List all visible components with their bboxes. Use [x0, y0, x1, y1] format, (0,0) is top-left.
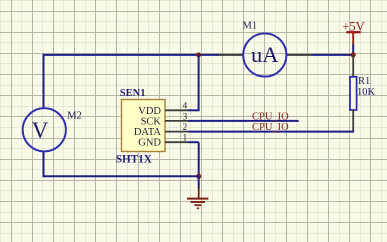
ground bar 3: [194, 204, 201, 206]
ammeter M1 body circle: [243, 33, 286, 76]
svg-text:uA: uA: [251, 42, 279, 67]
chip SEN1 body: [122, 100, 166, 152]
svg-text:R1: R1: [358, 76, 370, 87]
svg-text:SCK: SCK: [141, 116, 162, 127]
ammeter M1 right pin: [287, 54, 313, 56]
wire: stub below power port: [352, 44, 354, 55]
svg-text:VDD: VDD: [138, 106, 161, 117]
wire: VDD horizontal stub to pin 4: [188, 109, 200, 111]
svg-text:3: 3: [183, 112, 188, 122]
junction dot at +5V rail: [351, 52, 356, 57]
resistor R1 body: [350, 77, 357, 110]
svg-text:CPU_IO: CPU_IO: [252, 122, 289, 133]
ground bar 1: [187, 198, 208, 200]
wire: VDD vertical drop: [198, 55, 200, 110]
ground symbol stem: [198, 189, 200, 198]
ground bar 4: [197, 207, 199, 209]
svg-text:V: V: [32, 118, 49, 143]
wire: DATA net: [188, 131, 354, 133]
pin 4 line: [165, 109, 188, 111]
wire: SCK net: [188, 120, 299, 122]
ground stem wire part: [198, 176, 200, 189]
resistor R1 top pin: [352, 55, 354, 77]
wire: M2 top vertical segment: [43, 55, 45, 109]
svg-text:1: 1: [183, 134, 188, 144]
svg-text:2: 2: [183, 123, 188, 133]
svg-text:M2: M2: [67, 110, 82, 121]
svg-text:DATA: DATA: [134, 127, 162, 138]
svg-text:10K: 10K: [357, 87, 376, 98]
svg-text:SEN1: SEN1: [120, 88, 146, 99]
wire: GND vertical from pin 1: [198, 142, 200, 176]
wire: main horizontal net to ammeter: [43, 54, 220, 56]
pin 1 line: [165, 141, 188, 143]
wire: GND stub from pin 1: [188, 141, 199, 143]
power port +5V stem: [352, 33, 354, 45]
junction dot at ground node: [196, 174, 201, 179]
svg-text:SHT1X: SHT1X: [116, 154, 152, 166]
svg-text:M1: M1: [243, 21, 258, 32]
ammeter M1 left pin: [219, 54, 244, 56]
ground bar 2: [191, 201, 205, 203]
power port +5V bar: [346, 31, 360, 33]
wire: ammeter to +5V rail: [312, 54, 353, 56]
pin 3 line: [165, 120, 188, 122]
resistor R1 bottom pin: [352, 110, 354, 133]
wire: M2 bottom vertical: [43, 151, 45, 177]
voltmeter M2 body circle: [23, 108, 66, 151]
svg-text:GND: GND: [138, 138, 161, 149]
svg-text:CPU_IO: CPU_IO: [252, 111, 289, 122]
wire: bottom horizontal to voltmeter: [44, 175, 199, 177]
junction dot at VDD tap: [196, 52, 201, 57]
pin 2 line: [165, 131, 188, 133]
svg-text:4: 4: [183, 102, 188, 112]
